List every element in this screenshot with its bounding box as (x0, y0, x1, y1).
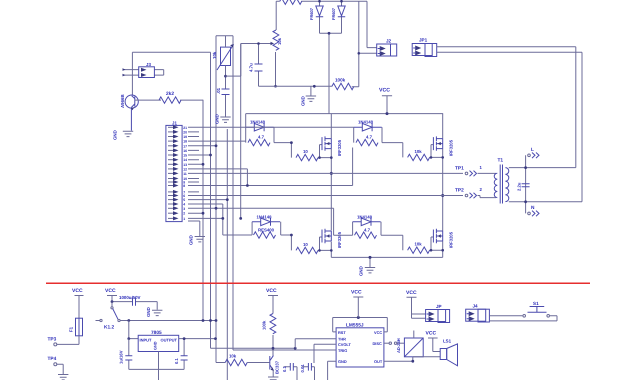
svg-text:VCC: VCC (72, 288, 83, 294)
svg-text:J4: J4 (473, 304, 479, 309)
svg-text:12: 12 (183, 167, 187, 171)
svg-text:0.1: 0.1 (282, 366, 287, 372)
svg-text:J1: J1 (172, 121, 177, 126)
svg-text:VCC: VCC (426, 331, 437, 337)
svg-text:5: 5 (183, 198, 185, 202)
svg-text:CVOLT: CVOLT (338, 342, 352, 347)
svg-text:RST: RST (338, 330, 346, 335)
svg-text:1N4148: 1N4148 (250, 120, 266, 125)
svg-text:18: 18 (183, 140, 187, 144)
svg-text:GND: GND (359, 266, 364, 276)
svg-text:TP4: TP4 (48, 356, 57, 362)
svg-text:4.7: 4.7 (364, 228, 371, 233)
svg-text:JP: JP (436, 304, 442, 309)
svg-text:LM555J: LM555J (346, 323, 364, 329)
svg-text:10k: 10k (415, 242, 423, 247)
svg-text:3: 3 (183, 207, 185, 211)
svg-text:GND: GND (189, 235, 194, 245)
svg-text:DISC: DISC (373, 341, 382, 346)
svg-text:IRF3205: IRF3205 (337, 231, 342, 248)
svg-text:2: 2 (183, 212, 185, 216)
svg-text:S1: S1 (533, 301, 539, 306)
svg-text:L: L (531, 147, 534, 153)
svg-text:F1: F1 (69, 326, 74, 332)
svg-text:T1: T1 (498, 158, 504, 164)
svg-text:0.1: 0.1 (174, 358, 179, 364)
svg-text:BC337: BC337 (275, 360, 280, 374)
svg-text:IRF3205: IRF3205 (449, 139, 454, 156)
svg-text:A966B: A966B (120, 94, 125, 108)
svg-text:14: 14 (183, 158, 187, 162)
svg-text:GND: GND (154, 341, 158, 350)
svg-text:1N4148: 1N4148 (257, 214, 273, 219)
svg-text:IRF3205: IRF3205 (337, 139, 342, 156)
svg-text:FR607: FR607 (309, 7, 314, 20)
svg-text:OUTPUT: OUTPUT (161, 338, 178, 343)
svg-text:GND: GND (113, 130, 118, 140)
svg-text:INPUT: INPUT (140, 338, 153, 343)
svg-text:TRIG: TRIG (338, 348, 347, 353)
svg-text:10k: 10k (212, 51, 217, 59)
svg-text:100k: 100k (262, 320, 267, 330)
svg-text:17: 17 (183, 144, 187, 148)
svg-text:JP1: JP1 (419, 38, 428, 43)
svg-text:1: 1 (183, 217, 185, 221)
svg-text:4.7u: 4.7u (249, 63, 254, 72)
svg-text:VCC: VCC (406, 290, 417, 296)
svg-text:OUT: OUT (374, 359, 383, 364)
svg-text:GND: GND (215, 114, 220, 124)
svg-text:10k: 10k (229, 354, 237, 359)
svg-text:VCC: VCC (374, 330, 382, 335)
svg-text:K1.2: K1.2 (104, 325, 114, 331)
svg-text:RES400: RES400 (258, 228, 275, 233)
svg-text:J3: J3 (146, 62, 151, 67)
svg-text:10k: 10k (277, 37, 282, 45)
svg-text:LS1: LS1 (443, 339, 452, 344)
svg-text:.01: .01 (216, 87, 221, 94)
svg-text:4.7: 4.7 (366, 135, 373, 140)
svg-text:VCC: VCC (351, 290, 362, 296)
svg-text:AD-Z4H: AD-Z4H (396, 338, 401, 353)
svg-text:GND: GND (146, 307, 151, 317)
svg-text:100k: 100k (335, 78, 346, 83)
svg-text:1: 1 (480, 165, 483, 170)
svg-text:FR607: FR607 (331, 7, 336, 20)
svg-text:N: N (531, 205, 535, 211)
svg-text:THR: THR (338, 337, 346, 342)
svg-text:20: 20 (183, 130, 187, 134)
svg-text:0.01: 0.01 (300, 364, 305, 373)
svg-text:TP3: TP3 (48, 337, 57, 343)
svg-text:1000u/50V: 1000u/50V (119, 295, 141, 300)
svg-text:GND: GND (338, 359, 347, 364)
svg-text:2k2: 2k2 (166, 91, 174, 97)
svg-text:19: 19 (183, 135, 187, 139)
svg-text:1N4148: 1N4148 (357, 214, 373, 219)
svg-text:10: 10 (303, 149, 308, 154)
svg-text:TP1: TP1 (455, 166, 464, 172)
svg-text:VCC: VCC (379, 88, 390, 94)
svg-text:4.7: 4.7 (258, 135, 265, 140)
svg-text:11: 11 (183, 172, 187, 176)
svg-text:VCC: VCC (105, 288, 116, 294)
svg-text:1u/16V: 1u/16V (119, 350, 124, 364)
svg-text:J2: J2 (386, 39, 392, 44)
svg-text:13: 13 (183, 163, 187, 167)
svg-text:VCC: VCC (266, 288, 277, 294)
svg-text:TP2: TP2 (455, 188, 464, 194)
svg-text:16: 16 (183, 149, 187, 153)
svg-text:15: 15 (183, 154, 187, 158)
svg-text:GND: GND (301, 96, 306, 106)
svg-text:IRF3205: IRF3205 (449, 231, 454, 248)
svg-text:2: 2 (480, 187, 483, 192)
svg-text:10k: 10k (415, 149, 423, 154)
svg-text:8: 8 (183, 184, 185, 188)
svg-text:10: 10 (303, 242, 308, 247)
svg-text:7805: 7805 (151, 330, 162, 336)
svg-text:1N4148: 1N4148 (358, 120, 374, 125)
svg-text:2.2u: 2.2u (517, 182, 522, 191)
svg-text:21: 21 (183, 126, 187, 130)
